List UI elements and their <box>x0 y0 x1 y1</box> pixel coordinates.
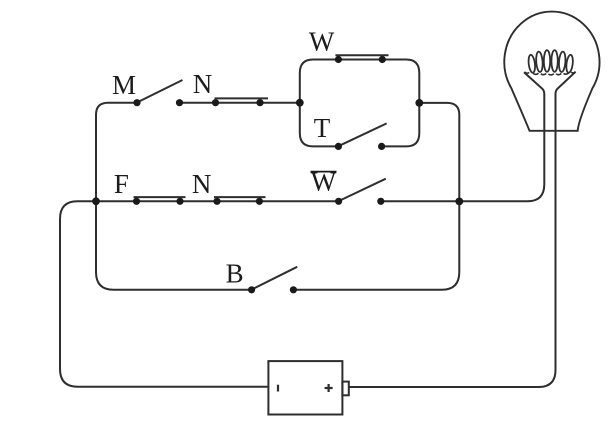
contact dot W right <box>379 56 386 63</box>
contact dot T pivot <box>335 143 342 150</box>
svg-text:W: W <box>309 27 335 57</box>
label Wbar overline <box>311 171 337 173</box>
wire node J4 to node J2 riser <box>419 103 459 201</box>
svg-text:M: M <box>112 70 136 100</box>
wire B branch right side up to node J2 <box>293 201 459 289</box>
svg-text:T: T <box>314 113 331 143</box>
contact dot W left <box>335 56 342 63</box>
contact dot Wbar pivot <box>335 198 342 205</box>
battery box <box>268 361 342 414</box>
wire B branch: from node J1 down, across switch B pivot <box>96 201 252 289</box>
switch F closed blade <box>134 196 186 198</box>
svg-text:F: F <box>114 169 129 199</box>
wire row1 between switch M and node J3 <box>180 102 300 104</box>
switch B blade (open) <box>253 267 298 289</box>
switch M blade (open) <box>138 80 183 102</box>
battery minus mark <box>277 385 279 392</box>
contact dot B pivot <box>248 286 255 293</box>
wire battery positive to bulb right lead and V support <box>349 72 576 387</box>
battery plus mark <box>325 384 333 392</box>
wire row2 from Wbar contact through node J2 to bulb left lead, V support <box>381 72 545 201</box>
switch Wbar blade (open) <box>340 179 386 201</box>
wire row2 left corner and row to switch Wbar <box>60 201 339 219</box>
contact dot T fixed <box>378 143 385 150</box>
switch N (row2) closed blade <box>214 196 266 198</box>
switch N (row1) closed blade <box>215 97 269 99</box>
contact dot M fixed <box>176 99 183 106</box>
contact dot F left <box>133 198 140 205</box>
svg-text:N: N <box>192 169 212 199</box>
node J4 junction dot <box>415 99 423 107</box>
contact dot F right <box>176 198 183 205</box>
contact dot N1 left (row1) <box>212 99 219 106</box>
contact dot N2 left (row2) <box>213 198 220 205</box>
node J2 junction dot <box>455 198 463 206</box>
switch T blade (open) <box>339 123 386 145</box>
svg-text:N: N <box>193 69 213 99</box>
battery terminal nub <box>342 382 348 396</box>
contact dot N1 right (row1) <box>256 99 263 106</box>
wire T branch bottom of parallel block left side <box>300 103 339 147</box>
wire row1 left riser from node J1 up to M row <box>96 103 139 202</box>
wire W branch top of parallel block <box>300 60 420 103</box>
svg-text:B: B <box>226 258 244 288</box>
node J3 junction dot <box>296 99 304 107</box>
lamp envelope <box>504 12 599 131</box>
wire outer left side down to battery row <box>60 219 268 387</box>
switch W closed blade <box>335 54 388 56</box>
wire T branch right side <box>382 103 420 146</box>
contact dot M pivot <box>133 99 140 106</box>
contact dot Wbar fixed <box>377 198 384 205</box>
lamp filament coil <box>525 50 576 75</box>
contact dot B fixed <box>290 286 297 293</box>
node J1 junction dot <box>92 197 100 205</box>
contact dot N2 right (row2) <box>256 198 263 205</box>
